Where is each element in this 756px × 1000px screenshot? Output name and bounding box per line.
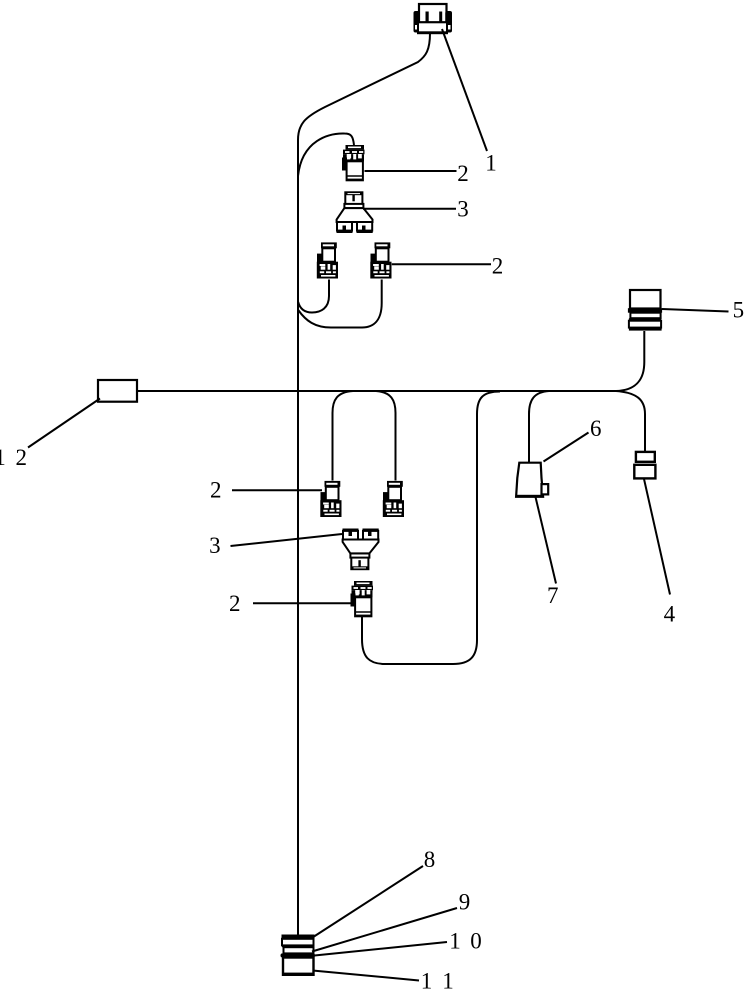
leader line 11 — [313, 971, 420, 981]
svg-text:1: 1 — [0, 445, 6, 470]
connector stack 8-11 — [281, 935, 316, 976]
connector 2 top — [342, 145, 365, 181]
connector 6 — [516, 463, 548, 497]
leader line 10 — [315, 942, 448, 956]
leader line 4 — [644, 479, 670, 595]
wire from connector 5 down to horizontal branch — [616, 331, 644, 391]
Y-splitter 3 bottom (flipped) — [343, 529, 379, 570]
svg-text:2: 2 — [210, 478, 222, 503]
wire from connector 2 top to trunk — [298, 133, 354, 176]
svg-text:1: 1 — [442, 968, 454, 993]
wire drop to connector 4 — [616, 391, 645, 452]
svg-text:2: 2 — [457, 161, 469, 186]
wire from connector 2 right of pair down to trunk — [298, 280, 382, 328]
svg-text:1: 1 — [421, 968, 433, 993]
leader line 6 — [544, 433, 589, 462]
connector 5 — [628, 290, 662, 331]
svg-text:2: 2 — [492, 253, 504, 278]
svg-text:8: 8 — [424, 847, 436, 872]
wire main trunk from connector 1 — [298, 33, 430, 935]
wire drop to connector 2 middle-right — [376, 391, 396, 481]
leader line 8 — [314, 866, 423, 937]
wire U-loop from connector 2 bottom to horizontal branch — [362, 392, 500, 665]
svg-text:2: 2 — [15, 445, 27, 470]
leader line 2 middle — [232, 489, 322, 491]
leader line 9 — [312, 908, 457, 952]
svg-text:0: 0 — [470, 928, 482, 953]
wire main horizontal branch — [137, 390, 616, 392]
Y-splitter 3 top — [337, 192, 373, 233]
leader line 5 — [662, 309, 729, 312]
svg-text:5: 5 — [733, 297, 745, 322]
connector 2 pair-left — [317, 242, 338, 278]
connector 2 bottom — [351, 581, 374, 617]
rectangle connector 12 — [98, 380, 137, 402]
leader line 1 — [442, 29, 487, 151]
leader line 3 bottom — [231, 534, 343, 546]
svg-text:7: 7 — [547, 583, 559, 608]
leader line 3 top — [363, 208, 456, 210]
connector 1 — [414, 4, 453, 34]
leader line 12 — [28, 399, 100, 448]
svg-text:6: 6 — [590, 416, 602, 441]
leader line 2 top — [365, 170, 457, 172]
svg-text:1: 1 — [485, 151, 497, 176]
svg-text:1: 1 — [449, 928, 461, 953]
connector 2 pair-right — [370, 242, 391, 278]
svg-text:2: 2 — [229, 591, 241, 616]
wire drop to connector 6 — [529, 391, 549, 463]
connector 4 — [634, 452, 655, 479]
wire drop to connector 2 middle-left — [333, 391, 354, 481]
connector 2 middle-left — [320, 481, 341, 517]
leader line 7 — [536, 497, 557, 584]
connector 2 middle-right — [383, 481, 404, 517]
leader line 2 pair — [392, 263, 491, 265]
wire from connector 2 left of pair down to trunk — [298, 280, 329, 313]
svg-text:4: 4 — [664, 601, 676, 626]
svg-text:3: 3 — [209, 533, 221, 558]
svg-text:3: 3 — [457, 197, 469, 222]
leader line 2 bottom — [253, 602, 351, 604]
svg-text:9: 9 — [459, 889, 471, 914]
